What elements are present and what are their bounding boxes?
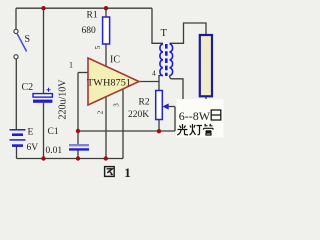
C2 polarity plus [47,88,51,92]
caption glyph tu 图 [105,167,115,177]
capacitor C2 plate bottom [33,100,52,103]
resistor R1 body [103,17,110,44]
wire R2 top lead [159,76,163,91]
potentiometer R2 body [156,91,163,120]
wire R1 top lead [105,8,107,17]
svg-text:1: 1 [124,165,131,180]
wire wiper drop [174,107,176,132]
svg-text:5: 5 [94,45,102,49]
R2 wiper arrow [162,103,168,109]
wire R1 bottom to IC pin5 [105,44,107,66]
junction dot node pin1 C1 [76,129,80,133]
svg-text:220K: 220K [128,110,149,120]
svg-text:220u/10V: 220u/10V [58,79,69,120]
op-amp style IC TWH8751 triangle [88,58,139,105]
wire bottom rail [17,158,124,160]
label background box [177,99,224,138]
wire pin1 vertical [77,73,79,146]
wire secondary top to tube [170,23,207,43]
glyph deng 灯 [190,124,203,135]
svg-text:0.01: 0.01 [46,146,63,156]
svg-text:R2: R2 [139,98,150,108]
junction dot top C2 [41,6,45,10]
svg-text:6--8W: 6--8W [179,109,211,123]
wire junction row y131 [78,130,175,132]
wire switch to battery [15,59,17,130]
svg-text:IC: IC [110,54,120,65]
junction dot bottom pin2 [104,156,108,160]
transformer T secondary winding [170,44,173,76]
capacitor C1 plate top [69,144,89,146]
transformer T core [165,44,168,76]
wire C1 to bottom rail [77,150,79,159]
junction dot top R1 [104,6,108,10]
svg-text:4: 4 [152,69,156,78]
fluorescent tube [200,35,212,96]
glyph guang 光 [177,124,188,135]
wire C2 branch lower [43,103,45,159]
wire pin1 horizontal [78,72,88,74]
svg-text:680: 680 [82,26,97,36]
switch S contacts [14,29,18,33]
svg-text:S: S [25,34,31,45]
wire C2 branch upper [43,8,45,93]
wire secondary bottom to tube [170,76,207,103]
wire transformer primary feed [152,8,163,43]
junction dot bottom C2 [41,156,45,160]
svg-text:R1: R1 [87,10,98,20]
svg-text:TWH8751: TWH8751 [87,79,131,89]
svg-text:C1: C1 [48,127,59,137]
capacitor C1 plate bottom [69,148,89,150]
wire IC output pin4 [139,81,159,83]
wire wiper to drop [168,106,176,108]
wire top rail [16,7,152,9]
wire R2 bottom lead [158,120,160,132]
battery E plates [10,130,26,146]
svg-text:6V: 6V [27,143,39,153]
svg-text:E: E [28,128,34,138]
capacitor C2 plate top [33,94,52,98]
wire left drop to switch [15,8,17,29]
junction dot bottom C1 [76,156,80,160]
svg-text:3: 3 [113,103,121,107]
glyph ri 日 [211,110,221,120]
junction dot node R2 bottom [157,129,161,133]
svg-text:1: 1 [69,60,73,69]
svg-text:T: T [161,28,168,39]
svg-text:2: 2 [97,110,105,114]
wire battery to bottom rail [16,147,18,159]
wire pin3 vertical [122,89,124,159]
svg-text:C2: C2 [22,82,34,93]
wire pin2 vertical [105,97,107,159]
transformer T primary winding [160,44,163,76]
switch S blade [17,34,26,52]
glyph guan 管 [204,124,214,135]
